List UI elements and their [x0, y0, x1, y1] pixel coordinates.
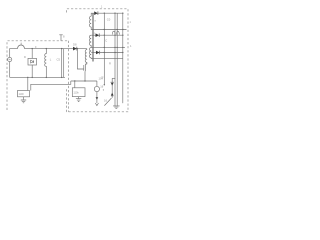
- svg-text:L: L: [50, 58, 52, 62]
- svg-text:F: F: [35, 45, 37, 49]
- svg-text:C: C: [105, 39, 107, 43]
- svg-text:D8: D8: [73, 43, 77, 47]
- svg-text:110b: 110b: [74, 92, 80, 95]
- svg-text:8: 8: [63, 35, 65, 39]
- svg-text:R: R: [109, 62, 111, 66]
- svg-text:1: 1: [130, 21, 132, 24]
- svg-text:D: D: [24, 55, 26, 59]
- svg-text:16: 16: [104, 99, 107, 103]
- svg-text:1100: 1100: [19, 93, 25, 96]
- svg-text:16: 16: [100, 85, 103, 89]
- svg-text:C5: C5: [57, 58, 61, 62]
- svg-text:1: 1: [130, 44, 132, 48]
- svg-text:C0: C0: [107, 18, 111, 22]
- svg-text:1: 1: [101, 6, 103, 9]
- svg-text:n: n: [95, 20, 97, 23]
- svg-text:n: n: [94, 32, 96, 35]
- svg-text:104: 104: [99, 77, 104, 81]
- svg-text:5: 5: [103, 89, 105, 92]
